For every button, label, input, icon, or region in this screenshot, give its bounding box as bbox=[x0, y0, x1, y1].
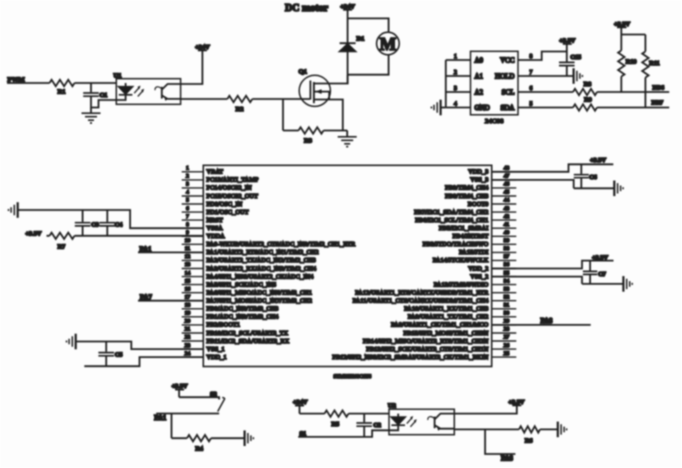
svg-text:PB6: PB6 bbox=[653, 84, 665, 91]
capacitor C6 bbox=[574, 164, 597, 188]
resistor R3 bbox=[283, 127, 347, 144]
resistor R7 bbox=[50, 233, 75, 251]
capacitor C7 bbox=[583, 261, 606, 284]
svg-text:PB11/I2C2_SDA/USART3_RX: PB11/I2C2_SDA/USART3_RX bbox=[207, 339, 290, 345]
wire VSSA rail bbox=[18, 210, 204, 228]
svg-text:PA8: PA8 bbox=[501, 456, 514, 463]
svg-text:34: 34 bbox=[504, 278, 510, 284]
svg-text:C7: C7 bbox=[598, 271, 606, 278]
svg-text:R4: R4 bbox=[195, 445, 204, 452]
node PA7 (MCU) bbox=[140, 295, 153, 302]
resistor R5 bbox=[325, 410, 349, 427]
wire +24V down to D1 bbox=[347, 10, 349, 43]
svg-text:PB2/BOOT1: PB2/BOOT1 bbox=[207, 323, 241, 329]
resistor R8 bbox=[573, 81, 597, 95]
svg-text:U1: U1 bbox=[114, 72, 122, 79]
resistor R6 bbox=[519, 426, 540, 444]
svg-text:47: 47 bbox=[504, 174, 510, 180]
svg-text:PB5/I2C1_SMBAI: PB5/I2C1_SMBAI bbox=[439, 226, 489, 232]
svg-text:+3.3V: +3.3V bbox=[590, 157, 606, 164]
wire U1 collector to +24V bbox=[181, 50, 203, 84]
svg-text:6: 6 bbox=[186, 206, 189, 212]
svg-text:R8: R8 bbox=[584, 81, 592, 88]
svg-text:C5: C5 bbox=[115, 351, 123, 358]
svg-text:24: 24 bbox=[185, 351, 191, 357]
wire S1 to U2 cathode bbox=[298, 430, 389, 437]
svg-text:31: 31 bbox=[504, 303, 510, 309]
svg-text:PB14/SPI2_MISO/USART3_RTS/TIM1: PB14/SPI2_MISO/USART3_RTS/TIM1_CH2N bbox=[363, 339, 489, 345]
svg-text:R1: R1 bbox=[58, 89, 66, 96]
svg-text:BOOT0: BOOT0 bbox=[468, 202, 489, 208]
svg-text:U2: U2 bbox=[388, 402, 397, 409]
svg-text:PB3/JTDO/TRACESWO: PB3/JTDO/TRACESWO bbox=[423, 242, 489, 248]
U1 light arrows bbox=[134, 86, 144, 97]
svg-text:14: 14 bbox=[185, 270, 191, 276]
svg-text:PA10/USART1_RX/TIM1_CH3: PA10/USART1_RX/TIM1_CH3 bbox=[404, 307, 488, 313]
node PB6 bbox=[653, 84, 665, 91]
wire U2 output to PA8 bbox=[485, 429, 515, 454]
node PWM bbox=[8, 76, 26, 83]
svg-text:PB10/I2C2_SCL/USART3_TX: PB10/I2C2_SCL/USART3_TX bbox=[207, 331, 289, 337]
svg-text:VCC: VCC bbox=[500, 56, 515, 64]
svg-text:37: 37 bbox=[504, 254, 510, 260]
svg-text:PA13/JTMS/SWDIO: PA13/JTMS/SWDIO bbox=[434, 282, 489, 288]
svg-text:4: 4 bbox=[186, 190, 189, 196]
wire U2 emitter to R6 bbox=[454, 428, 557, 430]
resistor R11 bbox=[642, 35, 659, 108]
svg-text:D1: D1 bbox=[357, 35, 365, 42]
wire PWM input bbox=[7, 82, 116, 84]
svg-text:42: 42 bbox=[504, 214, 510, 220]
svg-text:PA2/USART2_TX/ADC_IN2/TIM2_CH3: PA2/USART2_TX/ADC_IN2/TIM2_CH3 bbox=[207, 258, 316, 264]
svg-text:PB13/SPI2_SCK/USART3_CTS/TIM1_: PB13/SPI2_SCK/USART3_CTS/TIM1_CH1N bbox=[366, 347, 489, 353]
svg-text:VSSA: VSSA bbox=[207, 226, 224, 232]
svg-text:28: 28 bbox=[504, 327, 510, 333]
MCU right pin numbers bbox=[504, 166, 510, 357]
svg-text:PB9/TIM4_CH4: PB9/TIM4_CH4 bbox=[445, 186, 488, 192]
capacitor C2 bbox=[356, 414, 381, 437]
svg-text:PA8: PA8 bbox=[541, 318, 554, 325]
wire VDD_1 bbox=[84, 357, 203, 366]
MCU left pin labels bbox=[207, 170, 357, 361]
svg-text:C4: C4 bbox=[115, 222, 123, 229]
svg-text:C3: C3 bbox=[91, 222, 99, 229]
wire pullup rail bbox=[621, 34, 645, 36]
MCU left pin numbers bbox=[185, 166, 191, 357]
svg-text:PA11/USART1_CTS/CANRX/USBDM/TI: PA11/USART1_CTS/CANRX/USBDM/TIM1_CH4 bbox=[353, 299, 489, 305]
svg-text:Q1: Q1 bbox=[299, 69, 307, 76]
wire SCL net bbox=[518, 91, 669, 93]
node PA1 (MCU) bbox=[140, 246, 153, 253]
svg-text:PB12/SPI2_NSS/I2C2_SMBAI/USART: PB12/SPI2_NSS/I2C2_SMBAI/USART3_CK/TIM1_… bbox=[332, 355, 488, 361]
resistor R1 bbox=[50, 80, 75, 96]
ground (R4) bbox=[245, 430, 254, 446]
svg-text:PA14/JTCK/SWCLK: PA14/JTCK/SWCLK bbox=[433, 258, 489, 264]
svg-text:32: 32 bbox=[504, 294, 510, 300]
svg-text:27: 27 bbox=[504, 335, 510, 341]
wire +24V branch to motor bbox=[348, 18, 389, 32]
resistor R4 bbox=[172, 435, 245, 452]
svg-text:DC motor: DC motor bbox=[285, 3, 329, 14]
Q1 body arrow bbox=[314, 89, 329, 99]
power +3.3V (VDDA) bbox=[25, 230, 41, 237]
resistor R2 bbox=[227, 96, 252, 113]
svg-text:35: 35 bbox=[504, 270, 510, 276]
svg-text:PA0-WKUP/USART2_CTS/ADC_IN0/TI: PA0-WKUP/USART2_CTS/ADC_IN0/TIM2_CH1_ETR bbox=[207, 242, 357, 248]
svg-text:NRST: NRST bbox=[207, 218, 223, 224]
svg-text:C6: C6 bbox=[589, 174, 597, 181]
wire VCC to +3.3V bbox=[518, 52, 567, 61]
power +3.3V (C6) bbox=[590, 157, 606, 164]
svg-text:R7: R7 bbox=[58, 243, 66, 250]
24C08 pin names right bbox=[495, 56, 515, 112]
svg-text:5: 5 bbox=[186, 198, 189, 204]
wire HOLD to ground bbox=[518, 75, 574, 77]
wire 24C08 address bus bbox=[446, 60, 471, 108]
wire D1 anode to drain junction bbox=[347, 51, 349, 83]
svg-text:25: 25 bbox=[504, 351, 510, 357]
svg-text:PB1/ADC_IN9/TIM3_CH4: PB1/ADC_IN9/TIM3_CH4 bbox=[207, 315, 279, 321]
svg-text:VSS_2: VSS_2 bbox=[470, 274, 488, 280]
wire SDA net bbox=[518, 107, 669, 109]
node PA8 (MCU) bbox=[541, 318, 554, 325]
node PA8 (U2 output) bbox=[501, 456, 514, 463]
svg-text:13: 13 bbox=[185, 262, 191, 268]
ground (C6) bbox=[614, 181, 623, 197]
svg-text:PB6/I2C1_SCL/TIM4_CH1: PB6/I2C1_SCL/TIM4_CH1 bbox=[415, 218, 488, 224]
MCU right pin labels bbox=[332, 170, 489, 361]
power +3.3V (S2) bbox=[172, 383, 188, 397]
svg-text:STM32F103C8T6: STM32F103C8T6 bbox=[334, 374, 372, 380]
svg-text:PA1/USART2_RTS/ADC_IN1/TIM2_CH: PA1/USART2_RTS/ADC_IN1/TIM2_CH2 bbox=[207, 250, 319, 256]
svg-text:+3.3V: +3.3V bbox=[25, 230, 41, 237]
svg-text:38: 38 bbox=[504, 246, 510, 252]
ground below C1 bbox=[82, 108, 101, 124]
svg-text:PA3/USART2_RX/ADC_IN3/TIM2_CH4: PA3/USART2_RX/ADC_IN3/TIM2_CH4 bbox=[207, 266, 317, 272]
svg-text:VBAT: VBAT bbox=[207, 170, 224, 176]
svg-text:26: 26 bbox=[504, 343, 510, 349]
svg-text:43: 43 bbox=[504, 206, 510, 212]
svg-text:VSS_1: VSS_1 bbox=[207, 347, 225, 353]
node S1 bbox=[300, 431, 307, 438]
node PA1 (switch) bbox=[154, 415, 167, 422]
svg-text:PB8/TIM4_CH3: PB8/TIM4_CH3 bbox=[445, 194, 488, 200]
U2 LED bbox=[389, 414, 405, 431]
svg-text:PC13/ANTI_TAMP: PC13/ANTI_TAMP bbox=[207, 178, 259, 184]
svg-text:8: 8 bbox=[186, 222, 189, 228]
svg-text:19: 19 bbox=[185, 311, 191, 317]
svg-text:VDD_2: VDD_2 bbox=[468, 266, 488, 272]
svg-text:PB0/ADC_IN8/TIM3_CH3: PB0/ADC_IN8/TIM3_CH3 bbox=[207, 307, 279, 313]
capacitor C15 bbox=[559, 54, 581, 76]
power +3.3V (C7) bbox=[592, 254, 608, 261]
svg-text:A0: A0 bbox=[475, 56, 484, 64]
svg-text:PA8/USART1_CK/TIM1_CH1/MCO: PA8/USART1_CK/TIM1_CH1/MCO bbox=[391, 323, 489, 329]
ground below R3 bbox=[338, 131, 357, 147]
svg-text:23: 23 bbox=[185, 343, 191, 349]
U1 phototransistor bbox=[155, 84, 181, 101]
svg-text:PC14/OSC32_IN: PC14/OSC32_IN bbox=[207, 186, 253, 192]
svg-text:PA4/SPI1_NSS/USART2_CK/ADC_IN4: PA4/SPI1_NSS/USART2_CK/ADC_IN4 bbox=[207, 274, 314, 280]
svg-text:PA6/SPI1_MISO/ADC_IN6/TIM3_CH1: PA6/SPI1_MISO/ADC_IN6/TIM3_CH1 bbox=[207, 291, 313, 297]
svg-text:R9: R9 bbox=[584, 97, 592, 104]
wire U2 collector to +3.3V bbox=[454, 405, 517, 413]
U1 LED bbox=[116, 83, 132, 100]
wire VDDA rail bbox=[47, 235, 204, 237]
svg-text:+24V: +24V bbox=[195, 44, 210, 51]
svg-text:A1: A1 bbox=[475, 72, 484, 80]
svg-text:12: 12 bbox=[185, 254, 191, 260]
svg-text:PA15/JTDI: PA15/JTDI bbox=[459, 250, 488, 256]
svg-text:30: 30 bbox=[504, 311, 510, 317]
24C08 pin numbers 1-4 bbox=[454, 54, 457, 108]
wire VDD_3 to +3.3V rail bbox=[492, 164, 614, 172]
svg-text:PA1: PA1 bbox=[154, 415, 167, 422]
wire C1 bottom to U1 pin2 bbox=[91, 96, 116, 107]
ground 24C08 bbox=[431, 100, 445, 116]
svg-text:40: 40 bbox=[504, 230, 510, 236]
svg-text:VDD_1: VDD_1 bbox=[207, 355, 227, 361]
capacitor C4 bbox=[100, 210, 123, 236]
wire VDD_2 to +3.3V rail bbox=[492, 261, 614, 269]
switch S2 bbox=[210, 391, 225, 412]
svg-text:PA7/SPI1_MOSI/ADC_IN7/TIM3_CH2: PA7/SPI1_MOSI/ADC_IN7/TIM3_CH2 bbox=[207, 299, 313, 305]
wire PA1 down to R4 bbox=[171, 414, 173, 439]
svg-text:PD0/OSC_IN: PD0/OSC_IN bbox=[207, 202, 243, 208]
svg-text:C1: C1 bbox=[100, 92, 108, 99]
Q1 drain tap bbox=[314, 75, 348, 84]
svg-text:R3: R3 bbox=[304, 138, 312, 145]
transistor Q1 bbox=[299, 69, 331, 107]
svg-text:A2: A2 bbox=[475, 88, 484, 96]
svg-text:33: 33 bbox=[504, 286, 510, 292]
wire +24V to R5 bbox=[300, 413, 390, 415]
wire +3.3V to switch bbox=[179, 397, 219, 399]
svg-text:R10: R10 bbox=[626, 59, 637, 66]
IC 24C08 box bbox=[471, 51, 519, 125]
wire VSS_3 to ground bbox=[492, 180, 614, 188]
capacitor C5 bbox=[98, 342, 122, 367]
svg-text:PD1/OSC_OUT: PD1/OSC_OUT bbox=[207, 210, 249, 216]
svg-text:PB7/I2C1_SDA/TIM4_CH2: PB7/I2C1_SDA/TIM4_CH2 bbox=[414, 210, 488, 216]
24C08 pin numbers 8,7,6,5 bbox=[530, 54, 533, 108]
MCU right pin stubs bbox=[492, 172, 517, 357]
svg-text:SCL: SCL bbox=[502, 88, 515, 96]
svg-text:PA12/USART1_RTS/CANTX/USBDP/TI: PA12/USART1_RTS/CANTX/USBDP/TIM1_ETR bbox=[355, 291, 489, 297]
svg-text:44: 44 bbox=[504, 198, 510, 204]
svg-text:M: M bbox=[380, 34, 397, 54]
capacitor C3 bbox=[75, 210, 99, 236]
svg-text:PB15/SPI2_MOSI/TIM1_CH3N: PB15/SPI2_MOSI/TIM1_CH3N bbox=[403, 331, 488, 337]
svg-text:S2: S2 bbox=[210, 391, 217, 398]
U2 light arrows bbox=[407, 416, 417, 427]
power +24V (U2) bbox=[293, 399, 308, 414]
label DC motor bbox=[285, 3, 329, 14]
wire switch to PA1 bbox=[156, 413, 219, 415]
svg-text:15: 15 bbox=[185, 278, 191, 284]
ground (R6) bbox=[558, 422, 567, 438]
svg-text:2: 2 bbox=[186, 174, 189, 180]
svg-text:10: 10 bbox=[185, 238, 191, 244]
wire PA1 to pin 11 bbox=[138, 251, 203, 253]
svg-text:22: 22 bbox=[185, 335, 191, 341]
svg-text:29: 29 bbox=[504, 319, 510, 325]
svg-text:PB4/JNTRST: PB4/JNTRST bbox=[453, 234, 489, 240]
diode D1 bbox=[340, 35, 365, 51]
svg-text:24C08: 24C08 bbox=[485, 118, 504, 125]
svg-text:VDDA: VDDA bbox=[207, 234, 226, 240]
power +24V (U1) bbox=[195, 44, 210, 51]
resistor R9 bbox=[573, 97, 597, 111]
svg-text:PB7: PB7 bbox=[652, 100, 664, 107]
svg-text:PC15/OSC32_OUT: PC15/OSC32_OUT bbox=[207, 194, 259, 200]
MCU U3 STM32F103C8T6 box bbox=[203, 165, 491, 380]
svg-text:VDD_3: VDD_3 bbox=[468, 170, 488, 176]
wire motor bottom to drain junction bbox=[348, 55, 389, 75]
node PB7 bbox=[652, 100, 664, 107]
power +3.3V (pullups) bbox=[614, 21, 630, 35]
svg-text:HOLD: HOLD bbox=[495, 72, 514, 80]
wire U1 emitter to gate node bbox=[181, 98, 311, 100]
svg-text:R11: R11 bbox=[649, 60, 659, 67]
svg-text:21: 21 bbox=[185, 327, 191, 333]
svg-text:PA9/USART1_TX/TIM1_CH2: PA9/USART1_TX/TIM1_CH2 bbox=[408, 315, 489, 321]
ground C15/HOLD bbox=[574, 68, 583, 84]
op-amp U1 optocoupler box bbox=[114, 72, 181, 104]
svg-text:+3.3V: +3.3V bbox=[592, 254, 608, 261]
svg-text:1: 1 bbox=[186, 166, 189, 172]
Q1 source tap bbox=[314, 100, 343, 131]
op-amp U2 optocoupler box bbox=[388, 402, 454, 434]
ground (VSSA rail) bbox=[9, 202, 18, 218]
svg-text:C2: C2 bbox=[373, 422, 381, 429]
svg-text:41: 41 bbox=[504, 222, 510, 228]
svg-text:PA5/SPI1_SCK/ADC_IN5: PA5/SPI1_SCK/ADC_IN5 bbox=[207, 282, 277, 288]
power +3.3V (C15) bbox=[559, 38, 575, 62]
svg-text:C15: C15 bbox=[570, 54, 581, 61]
wire VSS_2 to ground bbox=[492, 277, 623, 284]
U2 phototransistor bbox=[428, 414, 455, 431]
MCU left pin stubs bbox=[182, 172, 204, 357]
svg-text:GND: GND bbox=[475, 104, 490, 112]
svg-text:R6: R6 bbox=[525, 438, 533, 445]
wire VSS_1 rail bbox=[76, 342, 204, 350]
svg-text:18: 18 bbox=[185, 303, 191, 309]
svg-text:45: 45 bbox=[504, 190, 510, 196]
svg-text:VSS_3: VSS_3 bbox=[470, 178, 488, 184]
capacitor C1 bbox=[83, 83, 107, 99]
svg-text:11: 11 bbox=[185, 246, 191, 252]
svg-text:3: 3 bbox=[186, 182, 189, 188]
svg-text:48: 48 bbox=[504, 166, 510, 172]
motor M bbox=[377, 32, 400, 55]
wire gate node down to R3 bbox=[282, 99, 284, 131]
ground (C7) bbox=[623, 276, 632, 292]
svg-text:16: 16 bbox=[185, 286, 191, 292]
svg-text:20: 20 bbox=[185, 319, 191, 325]
svg-text:R5: R5 bbox=[331, 421, 339, 428]
ground (VSS_1 rail) bbox=[67, 334, 76, 350]
svg-text:R2: R2 bbox=[236, 106, 244, 113]
svg-text:46: 46 bbox=[504, 182, 510, 188]
wire PA8 from pin 29 bbox=[492, 324, 591, 326]
svg-text:7: 7 bbox=[186, 214, 189, 220]
24C08 pin names left bbox=[475, 56, 490, 112]
svg-text:SDA: SDA bbox=[500, 104, 514, 112]
power +24V (motor) bbox=[340, 3, 355, 10]
svg-text:36: 36 bbox=[504, 262, 510, 268]
wire PA7 to pin 17 bbox=[138, 300, 203, 302]
power +3.3V (U2) bbox=[508, 399, 524, 406]
svg-text:39: 39 bbox=[504, 238, 510, 244]
resistor R10 bbox=[618, 35, 636, 93]
svg-text:17: 17 bbox=[185, 294, 191, 300]
